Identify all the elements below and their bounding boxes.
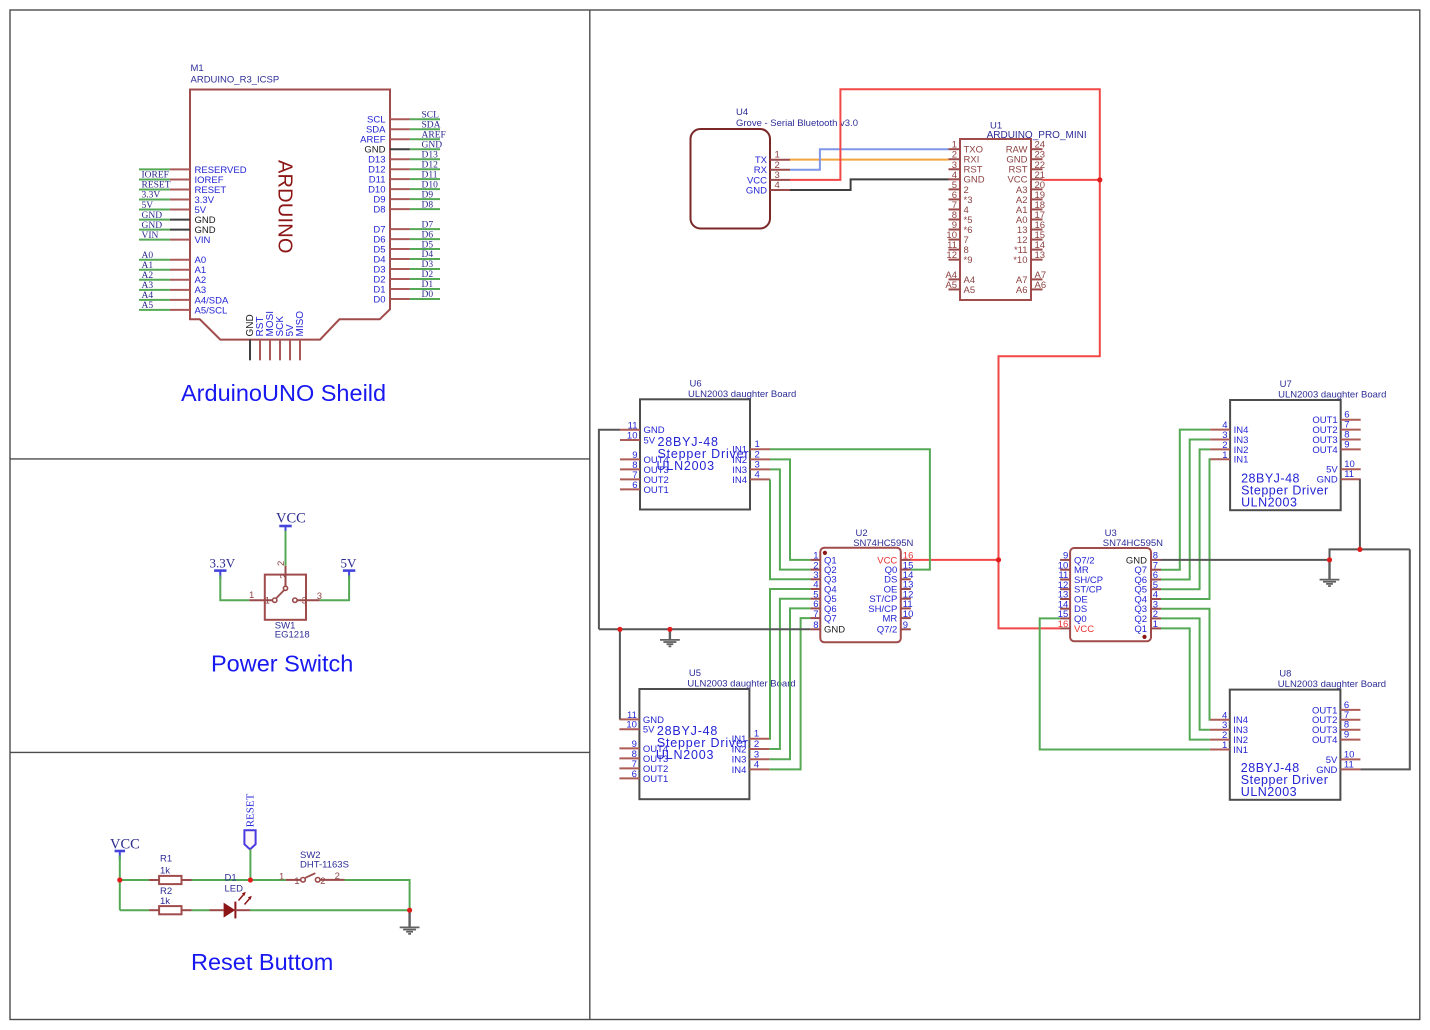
svg-text:5V: 5V	[142, 201, 154, 211]
M1 left pin A2 wire + stub	[139, 279, 190, 281]
svg-text:RESET: RESET	[245, 793, 257, 827]
SW2 pin number 1 (at contact)	[294, 876, 299, 887]
M1 pin name D2	[373, 274, 385, 285]
U6 left pin 6 (OUT1) stub	[620, 488, 640, 490]
U5 reference label	[689, 668, 701, 679]
svg-text:R1: R1	[160, 853, 172, 864]
title Power Switch	[211, 651, 353, 677]
M1 left pin VIN wire + stub	[139, 239, 190, 241]
svg-text:ARDUINO_R3_ICSP: ARDUINO_R3_ICSP	[191, 75, 280, 86]
U1 pin name A4	[964, 275, 976, 286]
U2 right pin 15 (Q0) stub	[901, 569, 911, 571]
wire R1 to RESET junction	[192, 879, 251, 881]
svg-text:3: 3	[317, 591, 322, 602]
U3 left pin 10 (MR) stub	[1060, 569, 1070, 571]
M1 pin name D5	[373, 244, 385, 255]
U6 pin name OUT3	[644, 465, 669, 476]
module U8 ULN2003 daughter Board body	[1230, 690, 1341, 800]
U2 right pin 12 (ST/CP) stub	[901, 598, 911, 600]
M1 pin name D13	[368, 155, 385, 166]
svg-text:Q7/2: Q7/2	[877, 625, 898, 636]
wire U6.IN1 to U2.Q0	[770, 449, 930, 569]
power symbol VCC (power switch)	[279, 526, 291, 535]
svg-text:D0: D0	[373, 294, 385, 305]
svg-text:VIN: VIN	[142, 231, 159, 241]
junction node RESET/SW2	[248, 877, 253, 882]
svg-text:D11: D11	[422, 170, 438, 180]
U8 left pin 3 (IN3) stub	[1210, 729, 1230, 731]
SW1 pin number 1 (at box edge)	[265, 595, 270, 606]
M1 pin name D3	[373, 264, 385, 275]
junction node GND at U3	[1327, 557, 1332, 562]
svg-text:A5/SCL: A5/SCL	[195, 305, 228, 316]
U6 right pin 4 (IN4) stub	[750, 478, 770, 480]
U1 pin name A1	[1016, 205, 1028, 216]
U2 pin number 15	[903, 560, 914, 571]
U2 left pin 3 (Q3) stub	[810, 578, 820, 580]
U1 right pin 13 (*10) stub	[1031, 259, 1043, 261]
LED D1	[210, 902, 251, 919]
U2 pin number 10	[903, 609, 914, 620]
M1 pin name A3	[195, 285, 207, 296]
IC U1 ARDUINO_PRO_MINI body	[960, 139, 1031, 300]
SW2 reference label	[300, 850, 321, 861]
wire U4.RX to U1.TXO (blue)	[790, 149, 949, 170]
U3 left pin 14 (DS) stub	[1060, 608, 1070, 610]
SW1 contact circle pin 3	[293, 598, 297, 602]
U1 pin name RXI	[964, 155, 980, 166]
U5 pin number 8	[632, 749, 637, 760]
svg-text:8: 8	[813, 620, 818, 631]
M1 pin name GND	[195, 225, 216, 236]
U2 pin name VCC	[877, 555, 897, 566]
net label D12	[422, 160, 439, 170]
U5 left pin 6 (OUT1) stub	[619, 777, 639, 779]
M1 left pin 5V wire + stub	[139, 209, 190, 211]
U2 pin name Q2	[824, 565, 837, 576]
svg-text:LED: LED	[225, 883, 244, 894]
wire U3.Q7 to U7.IN4	[1161, 430, 1210, 570]
U8 value label 28BYJ-48 Stepper Driver ULN2003	[1241, 761, 1329, 799]
switch SW2 DHT-1163S	[286, 873, 345, 882]
svg-text:GND: GND	[142, 221, 163, 231]
M1 vertical ARDUINO text	[274, 160, 296, 254]
svg-text:D9: D9	[422, 190, 434, 200]
U7 pin number 6	[1344, 410, 1349, 421]
svg-text:9: 9	[1344, 730, 1349, 741]
net label D13	[422, 150, 439, 160]
M1 right pin D11 stub + wire	[390, 178, 440, 180]
M1 right pin AREF stub + wire	[390, 138, 440, 140]
U6 pin number 11	[628, 420, 638, 431]
svg-text:Q1: Q1	[1134, 624, 1147, 635]
svg-text:U7: U7	[1280, 379, 1292, 390]
svg-text:ULN2003: ULN2003	[657, 459, 715, 473]
U1 pin number 17	[1035, 210, 1046, 221]
U1 pin name 12	[1017, 235, 1028, 246]
junction node GND symbol tap	[667, 627, 672, 632]
U3 right pin 8 (GND) stub	[1151, 559, 1161, 561]
svg-text:16: 16	[1058, 619, 1069, 630]
U5 pin name OUT1	[643, 774, 668, 785]
U7 right pin 8 (OUT3) stub	[1341, 439, 1361, 441]
U1 right pin 15 (12) stub	[1031, 239, 1043, 241]
svg-text:IN4: IN4	[732, 765, 747, 776]
M1 pin name D10	[368, 185, 385, 196]
U2 pin name ST/CP	[869, 594, 897, 605]
module U4 Grove - Serial Bluetooth v3.0 body	[691, 129, 771, 229]
U2 pin number 4	[813, 580, 818, 591]
wire U3.Q5 to U7.IN2	[1161, 449, 1210, 589]
U2 pin name Q7	[824, 614, 837, 625]
ground symbol (U3 section)	[1320, 560, 1340, 586]
svg-text:6: 6	[632, 769, 637, 780]
M1 pin name D8	[373, 205, 385, 216]
U7 pin name OUT2	[1312, 425, 1337, 436]
U8 pin name OUT2	[1312, 715, 1337, 726]
wire 3.3V to SW1 pin 1	[220, 575, 249, 600]
wire GND net U3.GND to right riser	[1161, 559, 1330, 561]
U3 pin name DS	[1074, 604, 1087, 615]
M1 ICSP pin label 5V	[285, 324, 296, 337]
wire GND riser up to U6.GND	[599, 430, 620, 630]
SW1 pin 1 lead	[249, 599, 272, 601]
U3 part name label SN74HC595N	[1103, 538, 1163, 549]
U4 pin name TX	[755, 155, 768, 166]
U6 pin number 7	[632, 470, 637, 481]
U2 pin number 6	[813, 599, 818, 610]
U2 pin number 12	[903, 589, 914, 600]
wire GND branch up to U7.GND	[1359, 479, 1361, 549]
U2 left pin 1 (Q1) stub	[810, 559, 820, 561]
U4 pin number 1	[775, 150, 780, 161]
M1 left pin A1 wire + stub	[139, 269, 190, 271]
U2 pin name Q1	[824, 555, 837, 566]
wire U2.VCC pin16 to VCC net (red)	[911, 559, 999, 561]
U3 pin name Q5	[1134, 585, 1147, 596]
U1 pin name RAW	[1006, 145, 1028, 156]
U2 pin number 2	[813, 560, 818, 571]
IC U3 SN74HC595N body	[1070, 548, 1151, 641]
U5 left pin 10 (5V) stub	[619, 728, 639, 730]
U3 right pin 7 (Q7) stub	[1151, 569, 1161, 571]
svg-text:D8: D8	[422, 200, 434, 210]
M1 right pin D8 stub + wire	[390, 208, 440, 210]
svg-text:D3: D3	[422, 260, 434, 270]
U7 pin number 8	[1344, 430, 1349, 441]
net label D9	[422, 190, 434, 200]
M1 left pin RESERVED wire + stub	[139, 168, 190, 170]
net label A3	[142, 281, 154, 291]
svg-text:A1: A1	[142, 261, 154, 271]
U1 pin number 15	[1035, 230, 1046, 241]
SW2 value label DHT-1163S	[300, 860, 349, 871]
U1 pin number 18	[1035, 200, 1046, 211]
U6 right pin 3 (IN3) stub	[750, 468, 770, 470]
junction node GND branch U5	[617, 627, 622, 632]
U1 right pin 20 (A3) stub	[1031, 188, 1043, 190]
U4 pin 4 GND stub	[770, 189, 790, 191]
U1 right pin 24 (RAW) stub	[1031, 148, 1043, 150]
M1 right pin D4 stub + wire	[390, 258, 440, 260]
M1 left pin 3.3V wire + stub	[139, 199, 190, 201]
svg-text:3.3V: 3.3V	[142, 191, 161, 201]
U6 left pin 10 (5V) stub	[620, 439, 640, 441]
wire GND riser corner	[1330, 549, 1410, 560]
U3 pin name ST/CP	[1074, 585, 1102, 596]
svg-text:ULN2003 daughter Board: ULN2003 daughter Board	[1278, 390, 1386, 401]
net label IOREF	[142, 171, 169, 181]
M1 left pin IOREF wire + stub	[139, 178, 190, 180]
U1 pin number 10	[946, 230, 957, 241]
net label VCC	[276, 510, 306, 526]
U2 pin name SH/CP	[868, 604, 897, 615]
U3 pin name Q6	[1134, 575, 1147, 586]
U8 pin name OUT1	[1312, 705, 1337, 716]
svg-text:ULN2003 daughter Board: ULN2003 daughter Board	[1278, 679, 1386, 690]
svg-text:ULN2003: ULN2003	[1241, 785, 1297, 799]
U1 part name label ARDUINO_PRO_MINI	[987, 130, 1087, 141]
M1 pin name A4/SDA	[195, 295, 229, 306]
U6 pin name IN4	[732, 475, 747, 486]
R1 value label 1k	[160, 866, 170, 877]
svg-text:D1: D1	[225, 873, 237, 884]
module U7 ULN2003 daughter Board body	[1230, 400, 1341, 510]
U3 left pin 13 (OE) stub	[1060, 598, 1070, 600]
svg-text:A5: A5	[964, 285, 976, 296]
U1 right pin A7 (A7) stub	[1031, 278, 1043, 280]
U8 pin name IN2	[1233, 735, 1248, 746]
U8 right pin 11 (GND) stub	[1340, 768, 1360, 770]
U1 pin name A6	[1016, 285, 1028, 296]
U1 pin name A2	[1016, 195, 1028, 206]
net label VCC	[110, 836, 140, 852]
U3 pin number 2	[1153, 609, 1158, 620]
U5 left pin 7 (OUT2) stub	[619, 767, 639, 769]
U3 pin name Q7	[1134, 565, 1147, 576]
svg-text:ULN2003: ULN2003	[656, 748, 714, 762]
U4 pin name RX	[754, 165, 768, 176]
net label D5	[422, 240, 434, 250]
U7 right pin 7 (OUT2) stub	[1341, 429, 1361, 431]
U1 pin number 19	[1035, 190, 1046, 201]
U8 part name label ULN2003 daughter Board	[1278, 679, 1386, 690]
U8 right pin 7 (OUT2) stub	[1340, 719, 1360, 721]
net label A5	[142, 301, 154, 311]
U7 part name label ULN2003 daughter Board	[1278, 390, 1386, 401]
net label 3.3V	[142, 191, 161, 201]
svg-text:1: 1	[1153, 619, 1158, 630]
power symbol 3.3V	[214, 571, 226, 580]
U2 left pin 6 (Q6) stub	[810, 607, 820, 609]
M1 left pin GND wire + stub	[139, 229, 190, 231]
U2 pin number 5	[813, 589, 818, 600]
U2 pin number 1	[813, 551, 818, 562]
svg-text:6: 6	[632, 480, 637, 491]
svg-text:10: 10	[903, 609, 914, 620]
U8 pin name OUT4	[1312, 735, 1337, 746]
U3 pin name GND	[1126, 555, 1147, 566]
U2 pin name DS	[884, 575, 897, 586]
U8 pin number 11	[1344, 759, 1354, 770]
U1 left pin 4 (GND) stub	[949, 178, 961, 180]
wire U6.IN2 to U2.Q1	[770, 459, 810, 560]
frame: divider below ArduinoUNO Sheild section	[10, 458, 590, 460]
U7 pin name OUT4	[1312, 445, 1337, 456]
R1 reference label	[160, 853, 172, 864]
U8 pin number 2	[1222, 730, 1227, 741]
ground symbol (reset section)	[400, 910, 420, 934]
svg-text:A6: A6	[1016, 285, 1028, 296]
svg-text:OUT4: OUT4	[1312, 735, 1337, 746]
U1 left pin 6 (*3) stub	[949, 198, 961, 200]
svg-text:5V: 5V	[643, 725, 655, 736]
svg-text:Reset Buttom: Reset Buttom	[191, 949, 333, 975]
U2 right pin 9 (Q7/2) stub	[901, 628, 911, 630]
U3 pin number 8	[1153, 551, 1158, 562]
U6 part name label ULN2003 daughter Board	[688, 389, 796, 400]
U7 pin name IN2	[1234, 445, 1249, 456]
U6 pin number 3	[755, 459, 760, 470]
U1 pin name 7	[964, 235, 969, 246]
U6 pin name GND	[644, 425, 665, 436]
U5 pin name IN1	[732, 734, 747, 745]
svg-text:IN1: IN1	[1233, 745, 1248, 756]
M1 ICSP pin label RST	[255, 317, 266, 337]
U7 pin name 5V	[1326, 465, 1338, 476]
U1 pin number 7	[952, 200, 957, 211]
U3 pin name Q1	[1134, 624, 1147, 635]
U6 pin name OUT2	[644, 475, 669, 486]
wire U4.TX to U1.RXI (orange)	[790, 159, 949, 161]
U2 part name label SN74HC595N	[853, 538, 913, 549]
U1 pin name A5	[964, 285, 976, 296]
wire U3.Q1 to U8.IN2	[1161, 628, 1210, 739]
U2 pin name Q5	[824, 594, 837, 605]
svg-text:1: 1	[294, 876, 299, 887]
U2 pin number 16	[903, 551, 914, 562]
U2 right pin 14 (DS) stub	[901, 578, 911, 580]
U3 pin name SH/CP	[1074, 575, 1103, 586]
wire U3.Q4 to U7.IN1	[1161, 459, 1210, 599]
svg-text:A0: A0	[142, 251, 154, 261]
U8 right pin 9 (OUT4) stub	[1340, 739, 1360, 741]
M1 pin name 5V	[195, 205, 207, 216]
U2 pin name Q3	[824, 575, 837, 586]
M1 pin name A0	[195, 255, 207, 266]
svg-text:2: 2	[278, 574, 289, 579]
svg-text:1k: 1k	[160, 866, 170, 877]
svg-text:3.3V: 3.3V	[210, 555, 236, 570]
M1 ICSP pin 5V	[289, 340, 291, 361]
U3 right pin 5 (Q5) stub	[1151, 588, 1161, 590]
net label D1	[422, 280, 434, 290]
U6 pin number 1	[755, 439, 760, 450]
svg-text:GND: GND	[746, 185, 767, 196]
SW1 pin 3 lead	[297, 599, 319, 601]
U8 right pin 8 (OUT3) stub	[1340, 729, 1360, 731]
U3 pin name Q0	[1074, 614, 1087, 625]
M1 pin name GND	[195, 215, 216, 226]
U3 left pin 9 (Q7/2) stub	[1060, 559, 1070, 561]
wire junction to SW2	[250, 879, 286, 881]
M1 left pin A4/SDA wire + stub	[139, 299, 190, 301]
U1 pin number 20	[1035, 180, 1046, 191]
U5 left pin 11 (GND) stub	[619, 718, 639, 720]
U1 right pin 16 (13) stub	[1031, 229, 1043, 231]
net label D8	[422, 200, 434, 210]
svg-text:A4: A4	[142, 291, 154, 301]
U5 pin name IN3	[732, 755, 747, 766]
U1 pin number 2	[952, 150, 957, 161]
U8 pin number 1	[1222, 740, 1227, 751]
U6 pin name 5V	[644, 435, 656, 446]
svg-text:SCL: SCL	[422, 111, 440, 121]
M1 pin name RESERVED	[195, 165, 247, 176]
U8 pin number 3	[1222, 720, 1227, 731]
junction node right rail	[407, 908, 412, 913]
U5 value label 28BYJ-48 Stepper Driver ULN2003	[656, 724, 749, 762]
svg-text:A3: A3	[142, 281, 154, 291]
svg-text:AREF: AREF	[422, 130, 446, 140]
svg-text:IOREF: IOREF	[142, 171, 169, 181]
svg-text:M1: M1	[191, 63, 204, 74]
U8 pin number 9	[1344, 730, 1349, 741]
net label D4	[422, 250, 434, 260]
U3 right pin 4 (Q4) stub	[1151, 598, 1161, 600]
svg-text:VCC: VCC	[1074, 624, 1094, 635]
resistor R2	[149, 906, 191, 914]
M1 right pin D5 stub + wire	[390, 248, 440, 250]
U6 left pin 7 (OUT2) stub	[620, 478, 640, 480]
U5 pin name OUT3	[643, 754, 668, 765]
svg-text:ULN2003: ULN2003	[1241, 496, 1297, 510]
svg-text:11: 11	[1344, 759, 1354, 770]
M1 pin name VIN	[195, 235, 211, 246]
U4 pin 2 RX stub	[770, 169, 790, 171]
U1 pin name GND	[964, 175, 985, 186]
M1 ICSP pin GND	[249, 340, 251, 361]
U8 right pin 10 (5V) stub	[1340, 758, 1360, 760]
M1 right pin D13 stub + wire	[390, 158, 440, 160]
U2 pin number 8	[813, 620, 818, 631]
M1 part name label ARDUINO_R3_ICSP	[191, 75, 280, 86]
U6 pin name OUT4	[644, 455, 669, 466]
U6 left pin 8 (OUT3) stub	[620, 468, 640, 470]
U8 left pin 4 (IN4) stub	[1210, 719, 1230, 721]
U2 right pin 13 (OE) stub	[901, 588, 911, 590]
svg-text:Q7: Q7	[824, 614, 837, 625]
U1 pin number 14	[1035, 240, 1046, 251]
U1 right pin 23 (GND) stub	[1031, 158, 1043, 160]
U1 pin number 12	[946, 250, 957, 261]
M1 right pin D7 stub + wire	[390, 228, 440, 230]
U8 pin name IN1	[1233, 745, 1248, 756]
R2 value label 1k	[160, 896, 170, 907]
svg-text:D13: D13	[422, 150, 439, 160]
M1 pin name D1	[373, 284, 385, 295]
U1 left pin 9 (*6) stub	[949, 229, 961, 231]
U6 right pin 2 (IN2) stub	[750, 458, 770, 460]
U6 pin number 4	[755, 469, 760, 480]
U3 pin name Q3	[1134, 604, 1147, 615]
U1 left pin A4 (A4) stub	[949, 278, 961, 280]
M1 pin name D7	[373, 225, 385, 236]
svg-text:SN74HC595N: SN74HC595N	[1103, 538, 1163, 549]
U1 left pin 2 (RXI) stub	[949, 158, 961, 160]
U2 pin number 9	[903, 620, 908, 631]
wire GND branch down to U8.GND	[1360, 549, 1409, 769]
